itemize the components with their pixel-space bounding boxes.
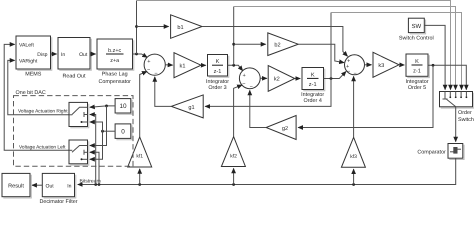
wire kf2 out to sum2 lower-left: [234, 85, 242, 137]
gain kf2: [221, 137, 245, 167]
svg-text:Order 5: Order 5: [408, 85, 426, 91]
svg-text:k1: k1: [180, 62, 186, 69]
Integrator Order 4 block: [301, 68, 325, 105]
wire MEMS Disp to Read Out: [51, 53, 57, 55]
svg-text:Order: Order: [458, 110, 472, 116]
gain b1: [171, 15, 202, 39]
Result block: [2, 173, 31, 198]
svg-text:Order 4: Order 4: [304, 98, 322, 104]
svg-text:MEMS: MEMS: [25, 72, 42, 78]
wire Comparator out down then bitstream rail left to Decimator Filter: [78, 158, 456, 184]
svg-text:Switch Control: Switch Control: [399, 36, 434, 42]
svg-text:−: −: [154, 71, 157, 77]
svg-text:Voltage Actuation Right: Voltage Actuation Right: [18, 108, 68, 114]
wire bitstream up to kf2: [232, 168, 235, 186]
svg-text:Read Out: Read Out: [62, 73, 86, 79]
svg-text:Out: Out: [79, 52, 88, 58]
svg-text:z+a: z+a: [110, 58, 119, 64]
Read Out block: [58, 38, 91, 80]
wire SW out to Order Switch input 1: [424, 25, 445, 89]
Switch Control block SW: [399, 18, 434, 41]
svg-text:Phase Lag: Phase Lag: [102, 72, 128, 78]
wire Decimator Filter to Result: [32, 184, 42, 186]
svg-text:K: K: [216, 59, 220, 65]
Integrator Order 3 block: [206, 55, 229, 91]
wire bitstream up to kf1: [138, 169, 141, 186]
One bit DAC dashed subsystem box: [14, 96, 134, 167]
wire sum2 out to k2: [260, 77, 267, 79]
svg-text:b2: b2: [274, 42, 280, 49]
svg-text:b.z+c: b.z+c: [108, 48, 121, 54]
wire tap phase-lag up to top rail 1 into Order Switch: [136, 1, 138, 55]
svg-text:−: −: [242, 81, 245, 87]
svg-text:b1: b1: [177, 24, 183, 31]
wire sum3 out to k3: [364, 64, 371, 66]
wire integrator5 out down to g2 input: [298, 65, 433, 127]
svg-text:Switch: Switch: [458, 117, 474, 123]
wire b1 out to sum3 upper-left: [202, 27, 348, 57]
svg-text:K: K: [415, 59, 419, 65]
svg-text:−: −: [147, 67, 150, 73]
Comparator block: [417, 144, 464, 160]
wire branch to b1 input: [135, 25, 169, 28]
Decimator Filter block: [39, 173, 77, 205]
sum junction sum3: [345, 55, 365, 77]
gain k2: [268, 66, 295, 92]
wire g1 out to sum1 bottom: [155, 77, 172, 107]
wire tap integrator4 up to top rail 3 into Order Switch: [330, 13, 332, 79]
svg-text:−: −: [250, 85, 253, 91]
wire branch to b2 input: [232, 43, 265, 46]
svg-text:kf1: kf1: [136, 154, 143, 160]
svg-text:10: 10: [119, 103, 127, 110]
gain g1: [171, 95, 203, 118]
Voltage Actuation Right switch block: [18, 102, 89, 127]
svg-text:K: K: [311, 72, 315, 78]
svg-text:Disp: Disp: [37, 52, 47, 58]
svg-text:+: +: [147, 59, 150, 65]
MEMS block: [16, 36, 52, 78]
svg-text:Decimator Filter: Decimator Filter: [39, 199, 77, 204]
svg-text:z-1: z-1: [214, 69, 222, 75]
wire VARight from Voltage Actuation Right output: [8, 60, 69, 114]
wire Integrator 3 out to sum2: [228, 64, 243, 71]
svg-text:g2: g2: [282, 126, 288, 132]
svg-text:SW: SW: [411, 23, 421, 30]
svg-text:Comparator: Comparator: [417, 150, 446, 156]
wire Read Out to Phase Lag Compensator: [90, 53, 96, 55]
svg-text:Voltage Actuation Left: Voltage Actuation Left: [19, 144, 66, 150]
svg-text:Compensator: Compensator: [99, 79, 132, 85]
wire k1 to Integrator Order 3: [201, 64, 206, 66]
Order Switch block: [440, 92, 474, 124]
constant 0 block: [115, 124, 132, 140]
wire Integrator 4 out to sum3 lower-left: [324, 72, 347, 80]
wire VALeft from Voltage Actuation Left output: [4, 44, 69, 150]
wire bitstream control to switch Voltage Actuation Left: [90, 152, 101, 186]
svg-text:Order 3: Order 3: [208, 85, 226, 91]
wire kf3 out to sum3 bottom: [353, 76, 355, 137]
gain kf1: [128, 137, 152, 167]
svg-text:kf2: kf2: [230, 153, 237, 159]
gain k1: [174, 53, 201, 78]
constant 10 block: [115, 99, 132, 115]
svg-text:In: In: [61, 52, 65, 58]
wire bitstream control to switch Voltage Actuation Right: [90, 115, 97, 186]
svg-text:Bitstream: Bitstream: [80, 179, 101, 185]
Phase Lag Compensator block: [97, 39, 134, 85]
Integrator Order 5 block: [405, 54, 429, 91]
sum junction sum2: [239, 68, 260, 91]
svg-text:z-1: z-1: [309, 82, 317, 88]
svg-text:−: −: [354, 71, 357, 77]
wire constant 10 to switch inputs: [90, 105, 115, 146]
wire kf1 out to sum1 lower-left: [140, 71, 147, 137]
wire tap integrator3 up to top rail 2 into Order Switch: [233, 7, 235, 66]
svg-text:0: 0: [121, 128, 125, 135]
svg-text:One bit DAC: One bit DAC: [16, 90, 46, 96]
wire Phase Lag out to sum1: [133, 53, 148, 58]
sum junction sum1: [144, 54, 165, 77]
svg-text:g1: g1: [188, 105, 194, 111]
Voltage Actuation Left switch block: [19, 140, 89, 165]
wire bitstream up to kf3: [352, 169, 355, 186]
gain k3: [373, 52, 399, 77]
wire k2 to Integrator Order 4: [295, 78, 301, 80]
gain b2: [268, 33, 298, 56]
wire Integrator 5 out right then down to Order Switch input 5: [428, 64, 466, 90]
svg-text:+: +: [242, 73, 245, 79]
gain g2: [266, 116, 296, 140]
gain kf3: [341, 137, 365, 167]
svg-text:Result: Result: [8, 182, 24, 189]
svg-text:Out: Out: [46, 183, 55, 189]
svg-text:VALeft: VALeft: [19, 43, 34, 49]
svg-text:VARight: VARight: [19, 59, 38, 65]
svg-text:z-1: z-1: [413, 69, 421, 75]
wire constant 0 to switch inputs: [90, 122, 115, 159]
wire k3 to Integrator Order 5: [399, 64, 404, 66]
wire integrator4 out down to g1 input: [205, 79, 331, 107]
svg-text:−: −: [347, 69, 350, 75]
wire g2 out to sum2 bottom: [250, 90, 266, 127]
svg-text:kf3: kf3: [350, 154, 357, 160]
wire Order Switch out to Comparator: [455, 107, 457, 142]
wire b2 out to sum3 left: [298, 44, 344, 62]
wire sum1 out to k1: [165, 64, 172, 66]
svg-text:In: In: [67, 183, 71, 189]
svg-text:k3: k3: [378, 62, 384, 69]
svg-text:k2: k2: [274, 76, 280, 83]
